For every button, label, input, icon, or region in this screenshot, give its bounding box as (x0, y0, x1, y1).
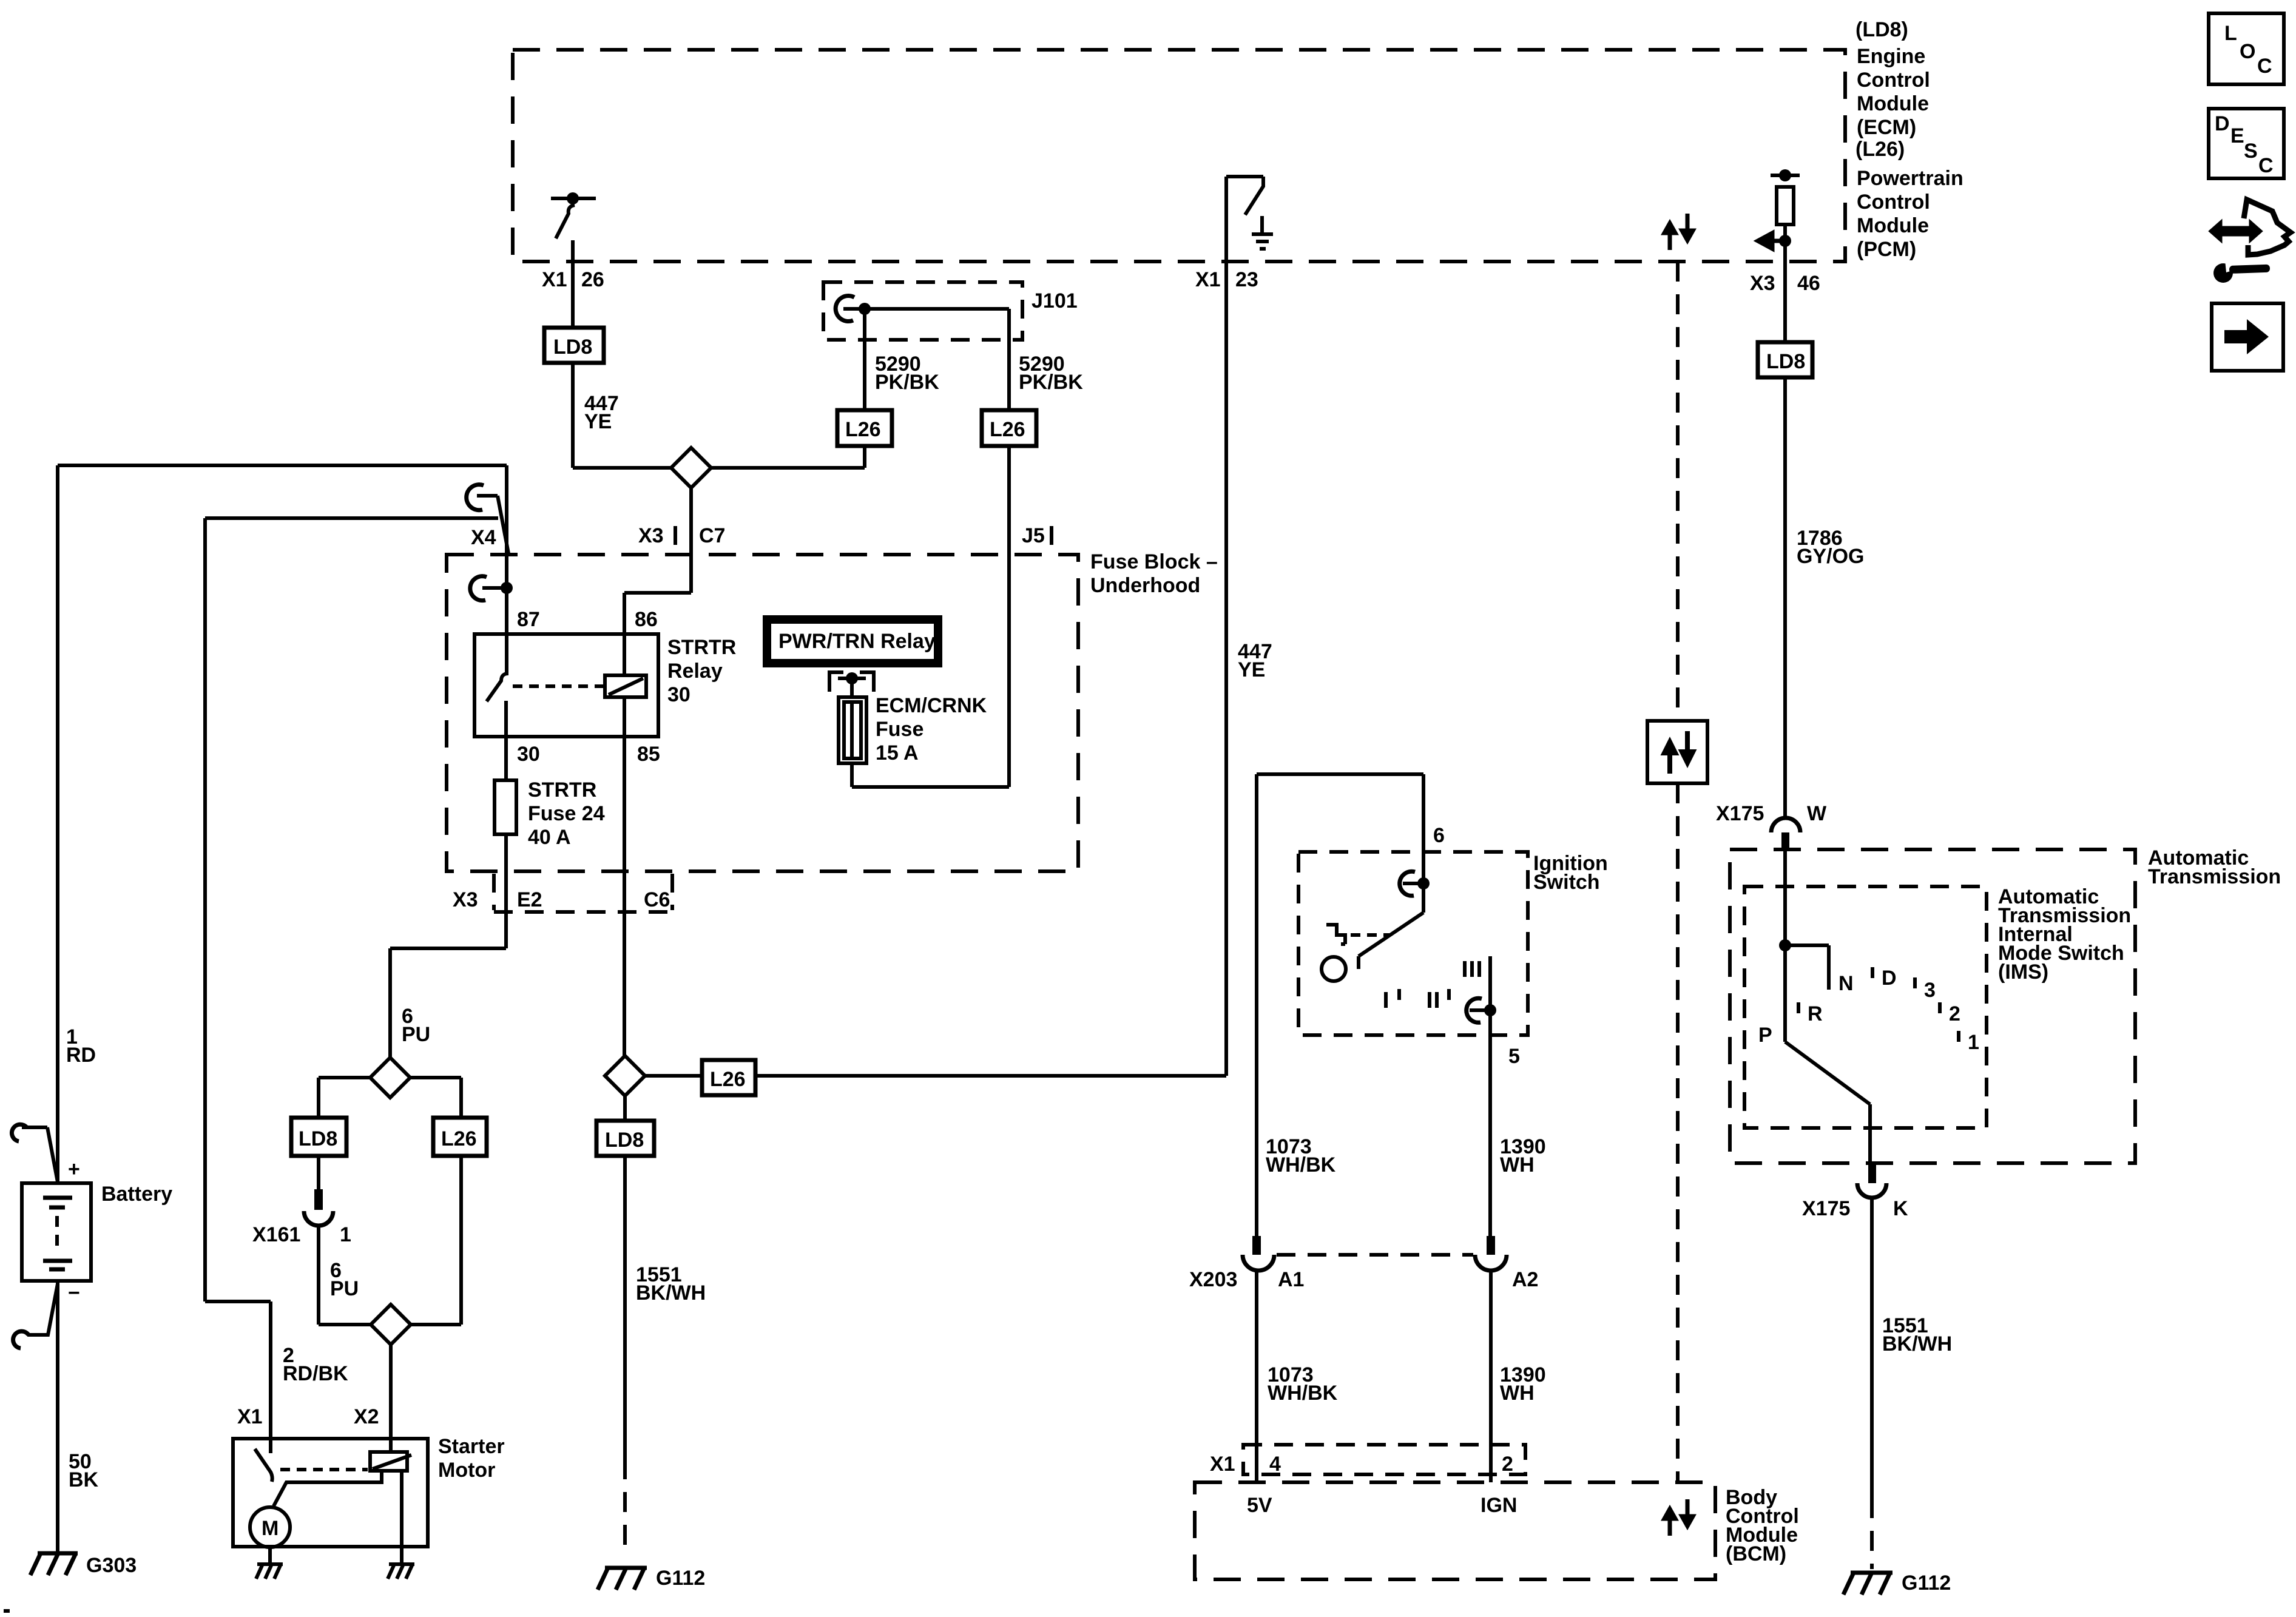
svg-text:(L26): (L26) (1855, 138, 1905, 161)
starter motor M (250, 1507, 290, 1565)
relay linkage dashed (513, 684, 604, 688)
IMS position labels (1758, 967, 1979, 1054)
svg-text:D: D (2215, 112, 2230, 135)
body control module box (1195, 1482, 1715, 1579)
X203 connector dashed line (1277, 1253, 1473, 1257)
PCM serial data dashed wire (1676, 262, 1680, 1482)
svg-text:STRTR: STRTR (667, 636, 736, 659)
battery positive cable and clamp (12, 465, 58, 1183)
svg-text:(IMS): (IMS) (1998, 960, 2048, 984)
svg-text:(ECM): (ECM) (1857, 116, 1916, 139)
wire relay 85 down (623, 697, 626, 1056)
ignition switch feed loop 1073 (1257, 774, 1445, 1236)
svg-text:BK: BK (69, 1468, 99, 1491)
switch contact X1 26 (inside ECM) (551, 192, 596, 328)
BCM module labels (1726, 1486, 1799, 1565)
relay coil (605, 675, 646, 697)
wire dashed to G112 right (1870, 1498, 1874, 1569)
svg-text:RD: RD (66, 1044, 96, 1067)
svg-text:X1: X1 (542, 268, 567, 291)
svg-text:30: 30 (667, 683, 690, 706)
svg-text:WH/BK: WH/BK (1266, 1153, 1336, 1176)
ground G112 (engine) (598, 1567, 705, 1590)
wire 1551 BK/WH right label (1882, 1314, 1952, 1355)
inline connector X4 (clamp) (467, 485, 508, 553)
wire 1073 WH/BK label upper (1266, 1135, 1336, 1176)
splice diamond (L26 1551 run) (605, 1056, 645, 1096)
IMS box (1744, 885, 2131, 1128)
svg-text:C6: C6 (644, 888, 670, 911)
wire X1 23 to L26 run (447 YE) (1224, 177, 1228, 1076)
DESC symbol box (2209, 109, 2284, 178)
svg-text:LD8: LD8 (1766, 350, 1805, 373)
wire 1551 BK/WH to G112 (625, 1156, 706, 1551)
relay armature contact (487, 673, 508, 701)
svg-text:5: 5 (1508, 1045, 1520, 1068)
terminal labels 30 85 (517, 743, 660, 766)
bidirectional arrows (BCM serial data) (1664, 1499, 1693, 1536)
svg-text:X1: X1 (1210, 1453, 1235, 1476)
option box L26 (right) (982, 410, 1036, 446)
svg-text:Module: Module (1857, 92, 1929, 115)
connector row X3 E2 C6 (453, 874, 672, 912)
svg-text:5V: 5V (1247, 1494, 1272, 1517)
svg-text:P: P (1758, 1024, 1772, 1047)
svg-text:(LD8): (LD8) (1855, 18, 1908, 41)
svg-text:(BCM): (BCM) (1726, 1542, 1786, 1565)
svg-text:R: R (1808, 1002, 1823, 1025)
svg-text:O: O (2240, 40, 2255, 63)
svg-text:IGN: IGN (1481, 1494, 1517, 1517)
svg-text:Engine: Engine (1857, 45, 1925, 68)
wire fuse to E2 and splice (390, 834, 506, 1058)
terminal labels X1 X2 (starter) (237, 1405, 379, 1428)
svg-text:Fuse Block –: Fuse Block – (1090, 550, 1218, 573)
svg-text:26: 26 (581, 268, 604, 291)
wire C7 jog to relay 86 (624, 593, 691, 675)
svg-text:G303: G303 (86, 1554, 137, 1577)
svg-text:GY/OG: GY/OG (1797, 545, 1864, 568)
ignition switch blade (1322, 883, 1423, 981)
svg-text:4: 4 (1269, 1453, 1281, 1476)
connector row X3 C7 J5 (638, 524, 1052, 553)
option box LD8 (PCM run) (1758, 262, 1812, 377)
automatic transmission box (1730, 846, 2281, 1163)
wire splice to C7 (689, 488, 693, 593)
svg-text:M: M (262, 1517, 279, 1540)
wire starter X1 feed jog (205, 1301, 348, 1439)
svg-text:(PCM): (PCM) (1857, 238, 1916, 261)
svg-text:Fuse 24: Fuse 24 (528, 802, 605, 825)
splice branches to LD8 and L26 (319, 1078, 461, 1118)
PWR/TRN relay bold box (763, 615, 942, 667)
svg-text:Module: Module (1857, 214, 1929, 237)
wire 5290 PK/BK right (1009, 309, 1083, 410)
wire 1390 WH label upper (1500, 1135, 1546, 1176)
svg-text:YE: YE (1238, 658, 1265, 681)
svg-text:L: L (2224, 22, 2237, 45)
svg-text:LD8: LD8 (299, 1127, 337, 1150)
svg-text:WH: WH (1500, 1153, 1535, 1176)
option box LD8 (ground run) (596, 1096, 654, 1156)
svg-text:X203: X203 (1189, 1268, 1237, 1291)
svg-text:3: 3 (1924, 979, 1936, 1002)
svg-text:1: 1 (340, 1223, 351, 1246)
starter solenoid linkage dashed (280, 1468, 368, 1471)
svg-text:G112: G112 (1902, 1571, 1951, 1595)
svg-text:C7: C7 (699, 524, 725, 547)
ignition contact 6 (1400, 871, 1430, 896)
svg-text:C: C (2257, 55, 2272, 78)
svg-text:Control: Control (1857, 69, 1930, 92)
svg-text:X3: X3 (1750, 272, 1775, 295)
relay terminal bracket with junction (829, 672, 874, 697)
svg-text:Relay: Relay (667, 660, 723, 683)
option box LD8 (engine harness) (544, 328, 604, 363)
option box L26 (starter circuit) (433, 1118, 487, 1156)
svg-text:STRTR: STRTR (528, 778, 596, 802)
pin label X1 26 (542, 268, 604, 291)
svg-text:BK/WH: BK/WH (1882, 1332, 1952, 1355)
svg-text:23: 23 (1235, 268, 1258, 291)
svg-text:X175: X175 (1802, 1197, 1850, 1220)
battery (22, 1158, 172, 1305)
svg-text:K: K (1893, 1197, 1908, 1220)
inline connector X175 W (1716, 802, 1827, 851)
svg-text:2: 2 (1949, 1002, 1960, 1025)
starter ground right (388, 1564, 414, 1579)
svg-text:87: 87 (517, 608, 540, 631)
inline connector X203 A1 (1189, 1236, 1304, 1482)
svg-text:PU: PU (402, 1023, 430, 1046)
bidirectional arrows (ECM serial data) (1664, 214, 1693, 250)
splice J101 box (823, 282, 1078, 340)
wire 5290 PK/BK left (865, 309, 939, 410)
svg-text:WH: WH (1500, 1382, 1535, 1405)
wire 6 PU upper label (402, 1005, 430, 1046)
svg-text:PU: PU (330, 1277, 359, 1300)
svg-text:A1: A1 (1278, 1268, 1304, 1291)
svg-text:PK/BK: PK/BK (875, 371, 939, 394)
svg-text:L26: L26 (441, 1127, 477, 1150)
svg-text:BK/WH: BK/WH (636, 1281, 706, 1305)
svg-text:X175: X175 (1716, 802, 1764, 825)
wire L26 left to splice run (711, 446, 865, 468)
resistive terminal X3 46 (inside PCM) (1758, 169, 1800, 262)
svg-text:S: S (2244, 140, 2258, 163)
svg-text:N: N (1838, 972, 1854, 995)
ignition key linkage (1326, 925, 1389, 944)
service icon (double arrow, outline, wrench) (2210, 200, 2291, 283)
svg-text:L26: L26 (845, 418, 881, 441)
svg-text:W: W (1807, 802, 1827, 825)
svg-text:E2: E2 (517, 888, 542, 911)
starter solenoid switch (255, 1439, 272, 1482)
svg-text:15 A: 15 A (876, 741, 919, 765)
svg-text:+: + (68, 1158, 80, 1181)
wire 447 YE label (584, 392, 619, 433)
svg-text:Transmission: Transmission (2148, 865, 2281, 888)
svg-text:Motor: Motor (438, 1459, 495, 1482)
svg-text:−: − (68, 1281, 80, 1305)
starter solenoid coil (370, 1439, 411, 1471)
page mark (4, 1609, 10, 1613)
ignition switch box (1298, 852, 1608, 1035)
inline connector X203 A2 (1475, 1236, 1538, 1482)
svg-text:X161: X161 (252, 1223, 300, 1246)
ground G112 (transmission) (1843, 1571, 1951, 1595)
wire 50 BK label (69, 1450, 99, 1491)
starter internal wiring (274, 1471, 402, 1565)
battery negative cable and clamp (13, 1281, 58, 1553)
svg-text:PWR/TRN Relay: PWR/TRN Relay (778, 630, 936, 653)
svg-text:ECM/CRNK: ECM/CRNK (876, 694, 987, 717)
svg-text:A2: A2 (1512, 1268, 1538, 1291)
terminal labels 87 86 (517, 608, 658, 631)
svg-text:Underhood: Underhood (1090, 574, 1200, 597)
option box LD8 (starter circuit) (291, 1118, 346, 1156)
svg-text:PK/BK: PK/BK (1019, 371, 1083, 394)
ignition detent marks I II III (1386, 961, 1479, 1008)
starter feed wire to X4 (205, 518, 498, 1301)
option box L26 (ground run) (645, 1060, 1226, 1095)
svg-text:Switch: Switch (1533, 871, 1600, 894)
pin label X3 46 (1750, 272, 1820, 295)
svg-text:Powertrain: Powertrain (1857, 167, 1963, 190)
svg-text:Starter: Starter (438, 1435, 505, 1458)
forward arrow box (2212, 303, 2283, 371)
svg-text:X1: X1 (237, 1405, 263, 1428)
svg-text:WH/BK: WH/BK (1268, 1382, 1338, 1405)
svg-text:30: 30 (517, 743, 540, 766)
svg-text:J5: J5 (1022, 524, 1045, 547)
svg-text:L26: L26 (990, 418, 1025, 441)
wire LD8 to splice (573, 363, 671, 468)
STRTR fuse 24 (495, 778, 605, 849)
svg-text:G112: G112 (656, 1567, 705, 1590)
ground G303 (30, 1553, 137, 1577)
svg-text:YE: YE (584, 410, 612, 433)
clamp contact at relay 87 feed (470, 576, 513, 601)
J101 clamp contact and jumper (836, 296, 1009, 322)
svg-text:X4: X4 (471, 526, 496, 549)
svg-text:6: 6 (1433, 824, 1445, 847)
wire L26 branch down (411, 1156, 461, 1325)
ground switch contact X1 23 (inside ECM) (1226, 177, 1263, 215)
ignition contact 5 (1467, 956, 1520, 1236)
IMS selector wiring (1779, 849, 1870, 1163)
wire 1786 GY/OG (1785, 377, 1864, 819)
svg-text:Battery: Battery (101, 1183, 172, 1206)
wire 6 PU lower label (330, 1259, 359, 1300)
wire L26 right down to J5 (1007, 446, 1011, 787)
svg-text:D: D (1882, 967, 1897, 990)
pin label X1 23 (1195, 268, 1258, 291)
splice diamond (2 RD/BK) (319, 1305, 411, 1439)
ECM/PCM module labels (1855, 18, 1963, 261)
svg-text:J101: J101 (1032, 289, 1078, 312)
starter motor box (233, 1435, 505, 1547)
wire fuse to J5 (852, 763, 1009, 787)
svg-text:LD8: LD8 (605, 1129, 644, 1152)
splice diamond (447 YE) (671, 448, 711, 488)
wire 1 RD label (66, 1025, 96, 1067)
LOC symbol box (2209, 13, 2284, 84)
svg-text:E: E (2230, 124, 2244, 147)
serial data connector box with arrows (1647, 721, 1707, 783)
svg-text:L26: L26 (710, 1068, 746, 1091)
STRTR relay box (474, 634, 736, 737)
svg-text:Control: Control (1857, 191, 1930, 214)
wire 1390 WH label lower (1500, 1363, 1546, 1405)
ECM/PCM module box (513, 50, 1845, 262)
inline connector X161 pin 1 (252, 1156, 351, 1325)
option box L26 (left) (837, 410, 892, 446)
svg-text:LD8: LD8 (553, 336, 592, 359)
BCM connector row X1 4 2 (1210, 1445, 1525, 1476)
wire 1073 WH/BK label lower (1268, 1363, 1338, 1405)
svg-text:X2: X2 (354, 1405, 379, 1428)
wire relay 30 to fuse (504, 701, 508, 780)
svg-text:RD/BK: RD/BK (283, 1362, 348, 1385)
svg-text:46: 46 (1797, 272, 1820, 295)
svg-text:X3: X3 (638, 524, 664, 547)
svg-text:X1: X1 (1195, 268, 1221, 291)
svg-text:2: 2 (1502, 1453, 1513, 1476)
ECM/CRNK fuse 15A (839, 694, 987, 765)
svg-text:X3: X3 (453, 888, 478, 911)
battery feed wire to X4 (58, 465, 507, 673)
splice diamond (6 PU upper) (370, 1058, 410, 1098)
svg-text:40 A: 40 A (528, 826, 571, 849)
starter ground left (256, 1564, 283, 1579)
fuse block underhood box (447, 550, 1218, 871)
svg-text:85: 85 (637, 743, 660, 766)
svg-text:C: C (2258, 154, 2274, 177)
wire 447 YE label (right) (1238, 640, 1272, 681)
svg-text:86: 86 (635, 608, 658, 631)
svg-text:1: 1 (1968, 1031, 1979, 1054)
svg-text:Fuse: Fuse (876, 718, 923, 741)
internal ground (ECM) (1252, 216, 1273, 249)
inline connector X175 K (1802, 1163, 1908, 1498)
